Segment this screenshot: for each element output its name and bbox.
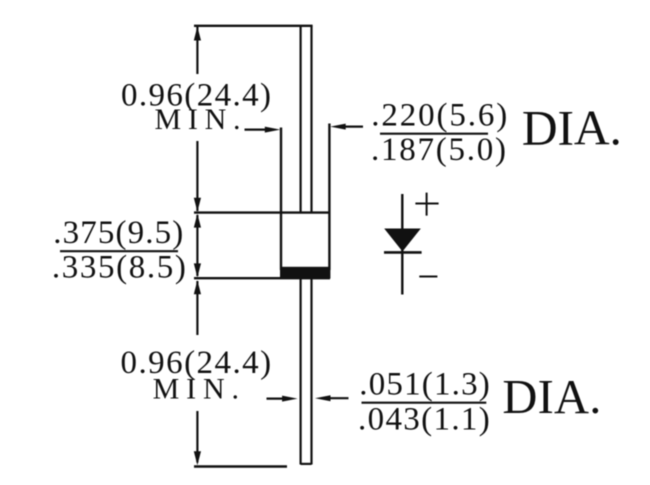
arrowhead up at body bottom (194, 280, 201, 294)
arrowhead right at body left extension (265, 127, 281, 133)
svg-text:.043(1.1): .043(1.1) (358, 401, 490, 437)
wire: body bottom line with left extension (194, 277, 330, 279)
dimension line: .375/.335 body length (196, 215, 198, 276)
wire: lower lead left edge (300, 279, 302, 465)
diode symbol D1: anode triangle (filled, pointing down) (384, 229, 421, 252)
arrowhead up at top datum (194, 27, 201, 41)
wire: lead-top extension line (top of upper lead / dimension datum) (194, 25, 313, 27)
fraction bar for .220/.187 (380, 133, 488, 135)
leader line from .051 label to lead (325, 397, 349, 399)
leader line from lower MIN. to lead (267, 398, 289, 400)
arrowhead down at body bottom (194, 263, 201, 277)
polarity mark: minus sign (cathode) (419, 276, 437, 278)
wire: upper lead right edge (310, 26, 312, 213)
wire: upper lead left edge (300, 26, 302, 213)
fraction bar for .375/.335 (60, 250, 178, 252)
wire: lower lead bottom end (301, 463, 312, 465)
wire: body top line with left extension (194, 211, 329, 213)
diode symbol D1: cathode lead line (401, 194, 403, 295)
cathode band (filled) on diode body (280, 267, 330, 279)
wire: bottom extension line (dimension datum) (194, 465, 287, 467)
polarity mark: plus sign (anode) (415, 193, 438, 216)
svg-text:.187(5.0): .187(5.0) (371, 132, 506, 168)
svg-text:.051(1.3): .051(1.3) (359, 367, 490, 403)
wire: body left edge with upward extension (280, 128, 282, 271)
arrowhead down at body top (194, 198, 201, 212)
diode symbol D1: cathode bar (384, 251, 422, 254)
dimension line: upper 0.96 MIN vertical segment below text (196, 141, 198, 211)
dimension line: upper 0.96 MIN vertical segment above text (196, 27, 198, 74)
dimension line: lower 0.96 MIN vertical segment below text (196, 411, 198, 463)
fraction bar for .051/.043 (362, 402, 487, 404)
arrowhead left at lower lead right edge (315, 395, 331, 401)
svg-text:.220(5.6): .220(5.6) (371, 98, 507, 134)
dimension line: lower 0.96 MIN vertical segment above text (196, 281, 198, 335)
leader line from upper MIN. to body edge (245, 129, 271, 131)
svg-text:.335(8.5): .335(8.5) (52, 250, 186, 286)
svg-text:DIA.: DIA. (502, 371, 601, 424)
svg-text:.375(9.5): .375(9.5) (53, 215, 183, 251)
arrowhead right at lower lead left edge (282, 396, 298, 402)
arrowhead up at body top (194, 214, 201, 228)
wire: lower lead right edge (310, 279, 312, 465)
leader line from .220 label to body edge (341, 125, 363, 127)
wire: body right edge with upward extension (328, 124, 330, 271)
arrowhead left at body right extension (330, 124, 346, 130)
arrowhead down at bottom datum (194, 451, 201, 465)
svg-text:DIA.: DIA. (522, 101, 622, 156)
